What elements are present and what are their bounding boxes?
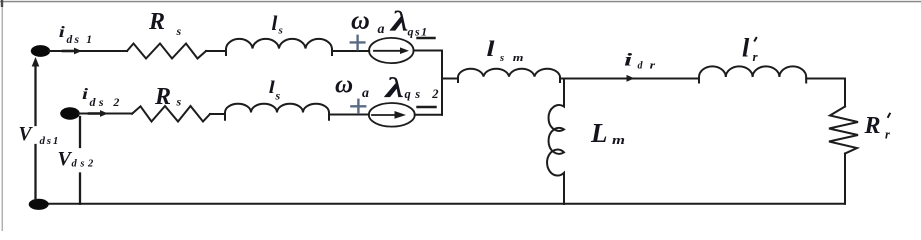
inductor l_s (branch 2): [225, 104, 329, 120]
node bottom terminal dot: [29, 199, 49, 210]
inductor l'_r: [699, 66, 806, 82]
arrow inside source U2: [372, 111, 406, 119]
current arrow i_ds1: [63, 48, 82, 55]
svg-text:qs 2: qs 2: [405, 87, 444, 101]
svg-text:ds 2: ds 2: [90, 95, 123, 109]
label i_dr: [624, 50, 655, 72]
wire: right vertical down to resistor R'_r: [844, 79, 846, 107]
label i_ds2: [82, 86, 123, 109]
wire: inductor to source U1: [332, 50, 369, 52]
wire: l'_r to right corner: [806, 78, 845, 80]
label l_sm: [487, 36, 524, 64]
arrow inside source U1: [374, 47, 409, 54]
wire: source U2 to join vertical: [415, 114, 442, 116]
wire: l_sm to node, node to rotor inductor: [560, 78, 699, 80]
svg-text:s: s: [278, 25, 283, 37]
source U1 ellipse (omega_a lambda_qs1): [369, 38, 414, 63]
svg-text:λ: λ: [390, 5, 409, 37]
inductor l_s (top): [226, 39, 332, 55]
svg-text:a: a: [362, 86, 369, 101]
label omega_a lambda_qs1: [351, 5, 429, 38]
svg-text:r: r: [650, 61, 656, 72]
label l_s (branch 2): [269, 77, 281, 102]
label V_ds1: [19, 124, 61, 147]
plus sign of source U1: [351, 36, 365, 49]
svg-text:r: r: [885, 128, 890, 142]
svg-text:V: V: [19, 124, 34, 145]
svg-text:m: m: [513, 53, 524, 64]
resistor R_s (branch 2): [132, 106, 210, 122]
svg-text:a: a: [378, 22, 385, 37]
wire: resistor to inductor (branch 2): [210, 113, 225, 115]
svg-text:l: l: [487, 36, 496, 61]
svg-text:ω: ω: [335, 71, 353, 98]
label omega_a lambda_qs2: [335, 71, 443, 104]
inductor l_sm: [458, 69, 560, 82]
svg-text:l: l: [269, 77, 275, 97]
minus sign of source U2: [418, 106, 436, 109]
label l'_r: [742, 34, 759, 64]
svg-text:ds 1: ds 1: [67, 34, 95, 46]
svg-text:ds2: ds2: [72, 158, 97, 169]
svg-text:l: l: [272, 11, 278, 35]
current arrow i_ds2: [89, 110, 108, 117]
resistor R_s (top): [127, 44, 206, 59]
svg-text:ω: ω: [351, 5, 370, 34]
wire: source U1 to join vertical: [414, 50, 442, 52]
svg-text:R: R: [148, 9, 165, 35]
svg-text:i: i: [82, 86, 89, 103]
svg-text:i: i: [624, 50, 632, 70]
svg-text:L: L: [590, 118, 608, 148]
wire: R'_r to bottom rail: [844, 154, 846, 204]
svg-text:R: R: [864, 113, 881, 139]
node V_ds2 terminal dot: [60, 107, 80, 119]
resistor R'_r vertical: [829, 107, 858, 154]
node V_ds1 top terminal dot: [31, 45, 50, 57]
wire branch2: dot to resistor: [79, 113, 132, 115]
plus sign of source U2: [351, 100, 365, 113]
wire: vertical joining both branches: [441, 51, 443, 115]
label L_m: [590, 118, 625, 148]
label R_s (top): [148, 9, 182, 38]
svg-text:qs1: qs1: [408, 24, 429, 38]
wire: left vertical V_ds1 with up arrow: [34, 62, 36, 199]
label i_ds1: [59, 24, 94, 46]
wire: vertical from node V_ds2 down to rail: [79, 117, 81, 204]
inductor L_m vertical with node stub: [547, 79, 564, 205]
label l_s (top): [272, 11, 283, 37]
svg-text:i: i: [59, 24, 66, 41]
wire top branch: dot to resistor: [49, 50, 127, 52]
source U2 ellipse (omega_a lambda_qs2): [369, 103, 415, 127]
wire: resistor to inductor (top): [206, 50, 226, 52]
wire: join to inductor l_sm: [442, 78, 458, 80]
svg-text:s: s: [275, 89, 281, 103]
svg-text:s: s: [176, 24, 182, 38]
minus sign of source U1: [418, 37, 435, 40]
wire: inductor to source U2: [329, 114, 369, 116]
label V_ds2: [58, 148, 97, 170]
current arrow i_dr: [627, 75, 635, 82]
wire: bottom rail: [39, 203, 845, 205]
svg-text:s: s: [176, 95, 182, 109]
svg-text:λ: λ: [384, 73, 404, 104]
svg-text:V: V: [58, 148, 73, 170]
svg-text:s: s: [499, 53, 504, 64]
svg-text:R: R: [154, 84, 171, 110]
svg-text:m: m: [612, 132, 625, 147]
svg-text:ds1: ds1: [40, 135, 61, 147]
label R_s (branch 2): [154, 84, 182, 110]
svg-text:l: l: [742, 34, 750, 63]
label R'_r: [864, 113, 891, 142]
